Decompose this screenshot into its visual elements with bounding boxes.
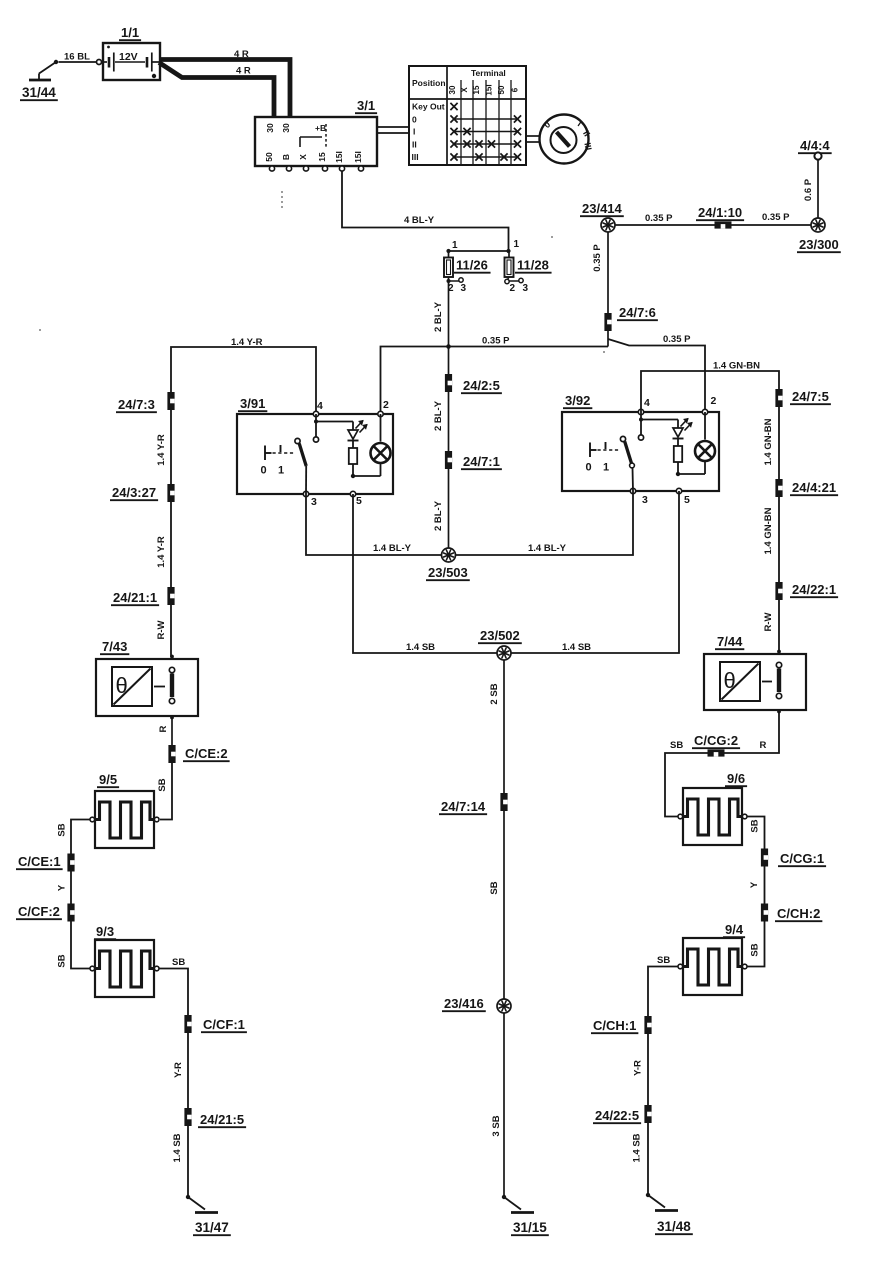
svg-text:24/21:1: 24/21:1 [113, 590, 157, 605]
svg-text:SB: SB [57, 954, 68, 967]
svg-text:2 BL-Y: 2 BL-Y [433, 500, 444, 531]
svg-text:X: X [460, 87, 469, 93]
svg-text:2: 2 [383, 399, 389, 411]
svg-text:3: 3 [523, 283, 529, 294]
svg-text:4: 4 [317, 400, 323, 412]
svg-text:R: R [760, 740, 767, 751]
svg-text:24/22:1: 24/22:1 [792, 582, 836, 597]
svg-text:24/7:5: 24/7:5 [792, 389, 829, 404]
svg-text:B: B [281, 154, 291, 160]
svg-text:1.4 BL-Y: 1.4 BL-Y [528, 543, 567, 554]
svg-text:Y-R: Y-R [173, 1062, 184, 1078]
svg-text:1: 1 [603, 462, 609, 474]
svg-text:3/1: 3/1 [357, 98, 375, 113]
svg-text:31/15: 31/15 [513, 1220, 547, 1235]
svg-text:0.35 P: 0.35 P [482, 336, 510, 347]
svg-text:0: 0 [586, 462, 592, 474]
svg-text:Y: Y [749, 881, 760, 888]
svg-text:16 BL: 16 BL [64, 52, 90, 63]
svg-text:R-W: R-W [156, 620, 167, 639]
svg-text:1: 1 [278, 465, 284, 477]
svg-text:7/43: 7/43 [102, 639, 127, 654]
svg-text:1.4 SB: 1.4 SB [562, 642, 591, 653]
svg-text:X: X [298, 154, 308, 160]
svg-text:3/92: 3/92 [565, 393, 590, 408]
svg-text:C/CE:1: C/CE:1 [18, 854, 61, 869]
svg-text:1.4 Y-R: 1.4 Y-R [231, 337, 263, 348]
svg-text:C/CF:2: C/CF:2 [18, 904, 60, 919]
svg-text:24/22:5: 24/22:5 [595, 1108, 639, 1123]
svg-text:θ: θ [116, 673, 128, 698]
svg-text:9/5: 9/5 [99, 772, 117, 787]
svg-text:12V: 12V [119, 51, 138, 63]
svg-text:24/7:3: 24/7:3 [118, 397, 155, 412]
svg-text:24/2:5: 24/2:5 [463, 378, 500, 393]
svg-text:3/91: 3/91 [240, 396, 265, 411]
svg-text:1.4 GN-BN: 1.4 GN-BN [763, 418, 774, 465]
svg-text:9/6: 9/6 [727, 771, 745, 786]
svg-text:1.4 SB: 1.4 SB [632, 1133, 643, 1162]
svg-text:0: 0 [261, 465, 267, 477]
svg-text:24/21:5: 24/21:5 [200, 1112, 244, 1127]
svg-text:15I: 15I [353, 151, 363, 163]
svg-text:11/26: 11/26 [456, 258, 488, 273]
svg-text:0: 0 [412, 115, 417, 125]
svg-text:1.4 Y-R: 1.4 Y-R [156, 434, 167, 466]
svg-text:23/414: 23/414 [582, 201, 623, 216]
svg-text:9/4: 9/4 [725, 922, 744, 937]
svg-text:31/48: 31/48 [657, 1219, 691, 1234]
svg-text:2 BL-Y: 2 BL-Y [433, 301, 444, 332]
svg-text:4/4:4: 4/4:4 [800, 138, 830, 153]
svg-text:1: 1 [514, 239, 520, 250]
svg-text:15: 15 [317, 152, 327, 162]
svg-text:1.4 SB: 1.4 SB [406, 642, 435, 653]
svg-text:Y: Y [57, 884, 68, 891]
svg-text:23/416: 23/416 [444, 996, 484, 1011]
svg-text:4 R: 4 R [234, 49, 249, 60]
svg-text:C/CE:2: C/CE:2 [185, 746, 228, 761]
svg-text:30: 30 [448, 85, 457, 94]
svg-text:Y-R: Y-R [633, 1060, 644, 1076]
svg-text:C/CH:1: C/CH:1 [593, 1018, 636, 1033]
svg-text:SB: SB [750, 819, 761, 832]
svg-text:R-W: R-W [763, 612, 774, 631]
svg-text:50: 50 [497, 85, 506, 94]
svg-text:1.4 Y-R: 1.4 Y-R [156, 536, 167, 568]
svg-text:31/47: 31/47 [195, 1220, 229, 1235]
svg-text:Position: Position [412, 78, 446, 88]
svg-text:C/CG:2: C/CG:2 [694, 733, 738, 748]
svg-text:III: III [412, 152, 419, 162]
svg-text:0.35 P: 0.35 P [645, 213, 673, 224]
svg-text:24/1:10: 24/1:10 [698, 205, 742, 220]
svg-text:24/3:27: 24/3:27 [112, 485, 156, 500]
svg-text:1.4 BL-Y: 1.4 BL-Y [373, 543, 412, 554]
svg-text:1/1: 1/1 [121, 25, 139, 40]
svg-text:2: 2 [510, 283, 516, 294]
svg-text:0.35 P: 0.35 P [762, 212, 790, 223]
svg-text:SB: SB [489, 881, 500, 894]
svg-text:4 BL-Y: 4 BL-Y [404, 215, 435, 226]
svg-text:2 SB: 2 SB [489, 683, 500, 704]
svg-text:SB: SB [750, 943, 761, 956]
svg-text:7/44: 7/44 [717, 634, 743, 649]
svg-text:2 BL-Y: 2 BL-Y [433, 400, 444, 431]
svg-text:θ: θ [724, 668, 736, 693]
svg-text:5: 5 [356, 495, 362, 507]
svg-text:15: 15 [472, 85, 481, 94]
svg-text:9/3: 9/3 [96, 924, 114, 939]
svg-text:1.4 SB: 1.4 SB [172, 1133, 183, 1162]
svg-text:30: 30 [265, 123, 275, 133]
svg-text:3: 3 [642, 494, 648, 506]
svg-text:0.6 P: 0.6 P [803, 178, 814, 201]
svg-text:24/7:1: 24/7:1 [463, 454, 500, 469]
svg-text:3: 3 [461, 283, 467, 294]
svg-text:C/CF:1: C/CF:1 [203, 1017, 245, 1032]
svg-text:15I: 15I [485, 84, 494, 95]
svg-text:4: 4 [644, 397, 650, 409]
svg-text:23/300: 23/300 [799, 237, 839, 252]
svg-text:SB: SB [157, 778, 168, 791]
svg-text:C/CH:2: C/CH:2 [777, 906, 820, 921]
svg-text:3 SB: 3 SB [491, 1115, 502, 1136]
svg-text:2: 2 [711, 395, 717, 407]
svg-text:24/7:6: 24/7:6 [619, 305, 656, 320]
svg-text:1.4 GN-BN: 1.4 GN-BN [713, 361, 760, 372]
svg-text:Terminal: Terminal [471, 68, 506, 78]
svg-text:C/CG:1: C/CG:1 [780, 851, 824, 866]
svg-text:SB: SB [172, 957, 185, 968]
svg-text:11/28: 11/28 [517, 258, 549, 273]
svg-text:24/4:21: 24/4:21 [792, 480, 836, 495]
svg-text:Key Out: Key Out [412, 102, 445, 112]
svg-text:4 R: 4 R [236, 66, 251, 77]
svg-text:SB: SB [657, 955, 670, 966]
svg-text:30: 30 [281, 123, 291, 133]
svg-text:R: R [158, 725, 169, 732]
svg-text:1.4 GN-BN: 1.4 GN-BN [763, 507, 774, 554]
svg-text:SB: SB [57, 823, 68, 836]
svg-text:1: 1 [452, 240, 458, 251]
svg-text:0.35 P: 0.35 P [592, 244, 603, 272]
svg-text:3: 3 [311, 496, 317, 508]
svg-text:+B: +B [315, 123, 326, 133]
svg-text:31/44: 31/44 [22, 85, 56, 100]
svg-text:II: II [412, 140, 417, 150]
svg-text:50: 50 [264, 152, 274, 162]
svg-text:24/7:14: 24/7:14 [441, 799, 486, 814]
svg-text:0.35 P: 0.35 P [663, 334, 691, 345]
svg-text:23/502: 23/502 [480, 628, 520, 643]
svg-text:6: 6 [511, 87, 520, 92]
svg-text:SB: SB [670, 740, 683, 751]
svg-text:23/503: 23/503 [428, 565, 468, 580]
svg-text:15I: 15I [334, 151, 344, 163]
svg-text:5: 5 [684, 494, 690, 506]
svg-text:I: I [413, 127, 415, 137]
